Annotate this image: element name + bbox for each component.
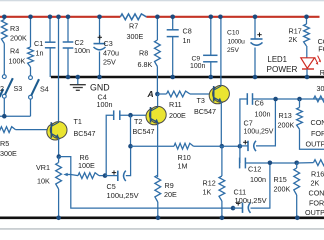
svg-text:100n: 100n <box>250 175 266 184</box>
svg-text:C10: C10 <box>227 30 240 37</box>
svg-text:100K: 100K <box>9 57 26 66</box>
svg-text:2K: 2K <box>289 35 298 44</box>
svg-text:T1: T1 <box>74 117 82 126</box>
svg-text:C12: C12 <box>248 165 261 174</box>
svg-text:2K: 2K <box>311 179 320 188</box>
svg-text:T2: T2 <box>134 117 142 126</box>
svg-text:1000u: 1000u <box>228 38 246 45</box>
svg-text:R14: R14 <box>320 68 324 77</box>
svg-text:R12: R12 <box>203 179 216 188</box>
svg-text:300E: 300E <box>0 149 17 158</box>
svg-text:200K: 200K <box>10 34 27 43</box>
svg-text:25V: 25V <box>227 47 239 54</box>
svg-text:300E: 300E <box>127 32 144 41</box>
svg-text:6.8K: 6.8K <box>138 60 153 69</box>
svg-text:FOR: FOR <box>318 44 324 53</box>
svg-text:R11: R11 <box>169 100 182 109</box>
svg-text:OUTPUT: OUTPUT <box>306 140 324 149</box>
svg-text:R4: R4 <box>10 47 19 56</box>
svg-text:2: 2 <box>0 84 4 93</box>
svg-text:BC547: BC547 <box>194 107 216 116</box>
svg-text:1n: 1n <box>36 49 44 58</box>
svg-text:100n: 100n <box>190 63 205 70</box>
svg-text:C1: C1 <box>34 39 43 48</box>
svg-text:200K: 200K <box>274 185 291 194</box>
svg-text:R3: R3 <box>10 24 19 33</box>
svg-text:200E: 200E <box>169 111 186 120</box>
svg-text:R8: R8 <box>139 49 148 58</box>
svg-text:100n: 100n <box>97 100 113 109</box>
svg-text:10K: 10K <box>37 177 50 186</box>
svg-text:LED1: LED1 <box>268 55 288 64</box>
svg-text:C9: C9 <box>192 56 201 63</box>
svg-text:25V: 25V <box>103 58 116 67</box>
svg-text:C5: C5 <box>107 182 116 191</box>
svg-text:R13: R13 <box>279 111 292 120</box>
svg-text:S4: S4 <box>40 85 49 94</box>
svg-text:CON2: CON2 <box>311 118 324 127</box>
svg-text:R5: R5 <box>0 139 9 148</box>
svg-text:C8: C8 <box>183 27 192 36</box>
svg-text:R9: R9 <box>165 181 174 190</box>
svg-text:20E: 20E <box>164 190 177 199</box>
svg-text:BC547: BC547 <box>133 127 155 136</box>
svg-text:FOR: FOR <box>309 198 324 207</box>
svg-text:POWER: POWER <box>267 65 298 74</box>
svg-text:100n: 100n <box>74 46 90 55</box>
svg-text:C3: C3 <box>104 39 113 48</box>
svg-text:S3: S3 <box>14 84 23 93</box>
svg-text:R17: R17 <box>289 27 302 36</box>
svg-text:100u,25V: 100u,25V <box>107 191 139 200</box>
svg-text:R15: R15 <box>274 175 287 184</box>
svg-text:1n: 1n <box>183 36 191 45</box>
svg-text:BC547: BC547 <box>74 129 96 138</box>
svg-text:470u: 470u <box>103 49 119 58</box>
svg-text:C6: C6 <box>255 99 264 108</box>
svg-text:200K: 200K <box>278 121 295 130</box>
svg-text:100u,25V: 100u,25V <box>235 196 267 205</box>
svg-text:100u,25V: 100u,25V <box>244 129 274 136</box>
svg-text:1K: 1K <box>203 188 212 197</box>
svg-text:300E: 300E <box>317 84 324 93</box>
svg-text:A: A <box>147 89 154 99</box>
svg-text:OUTPUT: OUTPUT <box>305 208 324 217</box>
svg-text:T3: T3 <box>197 96 205 105</box>
svg-text:R7: R7 <box>129 22 138 31</box>
svg-text:VR1: VR1 <box>36 163 50 172</box>
svg-text:R16: R16 <box>311 170 324 179</box>
svg-text:C7: C7 <box>244 119 253 128</box>
svg-text:FOR: FOR <box>311 129 324 138</box>
svg-text:100n: 100n <box>255 110 271 119</box>
svg-text:GND: GND <box>90 82 110 92</box>
svg-text:CON3: CON3 <box>309 189 324 198</box>
svg-text:100E: 100E <box>78 161 95 170</box>
svg-text:1M: 1M <box>178 162 188 171</box>
